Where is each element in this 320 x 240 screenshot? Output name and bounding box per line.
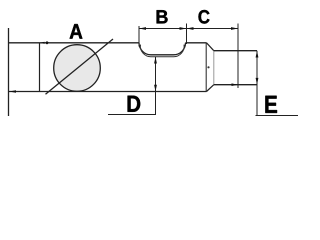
label B bbox=[157, 10, 168, 23]
left face line bbox=[8, 28, 10, 116]
arrow on top edge pointing left bbox=[40, 42, 44, 44]
dot on top edge bbox=[46, 41, 49, 44]
label A bbox=[70, 24, 83, 39]
arrow E down bbox=[256, 78, 259, 85]
arrow E up bbox=[256, 51, 259, 58]
extension line B left bbox=[138, 26, 140, 47]
ball (sphere) fill bbox=[54, 45, 101, 92]
arrow on end-section bottom edge pointing right bbox=[232, 83, 239, 86]
head junction line bbox=[39, 43, 41, 92]
arrow B left bbox=[139, 27, 146, 30]
groove outer profile bbox=[139, 43, 186, 55]
arrow C left bbox=[187, 27, 194, 30]
face center dot bbox=[207, 66, 209, 68]
extension line C right bbox=[237, 24, 239, 89]
extension line B/C shared bbox=[186, 24, 188, 45]
slash through ball bbox=[46, 39, 114, 94]
label D bbox=[128, 96, 141, 112]
dimension C line bbox=[187, 28, 239, 30]
label C bbox=[198, 10, 209, 24]
arrow C right bbox=[231, 27, 238, 30]
wire end section top edge bbox=[214, 50, 257, 52]
label E bbox=[265, 96, 277, 113]
dimension E vertical line bbox=[256, 51, 258, 116]
dimension D vertical line bbox=[155, 57, 157, 115]
bottom chamfer bbox=[207, 85, 214, 92]
arrow D up bbox=[154, 57, 157, 64]
top chamfer bbox=[207, 43, 214, 51]
arrow D down bbox=[154, 85, 157, 92]
chamfer junction line bbox=[213, 51, 215, 85]
step face line bbox=[205, 43, 207, 92]
groove inner profile bbox=[140, 45, 184, 57]
dimension B line bbox=[139, 28, 187, 30]
arrow on body bottom edge pointing left bbox=[9, 90, 16, 93]
E label underline bbox=[256, 115, 299, 117]
arrow B right bbox=[180, 27, 187, 30]
D label underline bbox=[108, 114, 156, 116]
wire plateau after groove bbox=[186, 42, 207, 44]
wire top edge body bbox=[9, 42, 140, 44]
wire end section bottom edge bbox=[214, 84, 257, 86]
wire bottom edge body bbox=[9, 91, 207, 93]
